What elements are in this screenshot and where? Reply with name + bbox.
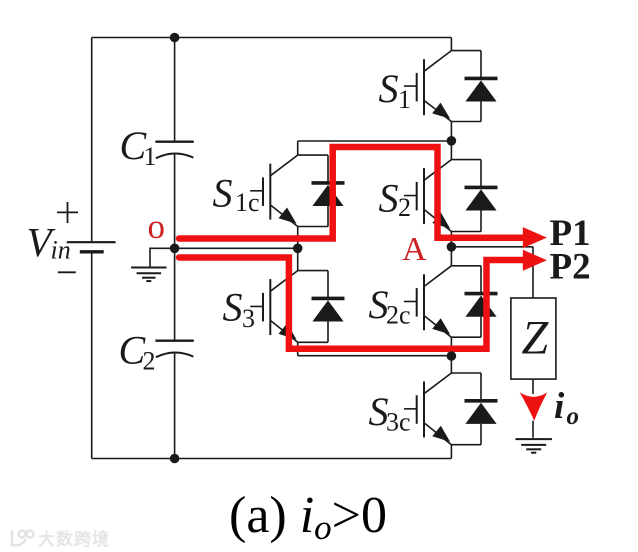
svg-text:大数跨境: 大数跨境	[38, 529, 110, 549]
current path P2 (red)	[179, 258, 524, 349]
junction dot: top rail / C1	[170, 33, 180, 43]
ground symbol at node o	[150, 248, 175, 266]
wire: top DC rail	[92, 37, 452, 39]
antiparallel diode of S2c	[465, 266, 498, 337]
svg-text:S: S	[379, 66, 399, 111]
wire: node A to load Z	[451, 247, 533, 298]
capacitor C2	[155, 341, 193, 358]
svg-text:S: S	[223, 285, 243, 330]
svg-text:2c: 2c	[386, 300, 411, 329]
label C1	[120, 123, 157, 171]
antiparallel diode of S1c	[312, 155, 345, 226]
label S1	[379, 66, 412, 114]
label io	[554, 386, 579, 430]
wire: top/bottom bridges of S3 cell	[298, 271, 328, 343]
wire: top/bottom bridges of S1 cell	[451, 51, 481, 122]
wire: top/bottom bridges of S3c cell	[451, 373, 481, 445]
wire: top/bottom bridges of S2 cell	[451, 160, 481, 232]
voltage source Vin (battery)	[67, 242, 116, 252]
arrowhead P2	[523, 250, 547, 271]
label Vin	[27, 219, 71, 265]
label S3	[223, 285, 256, 334]
junction dot: bottom rail / C2	[170, 454, 180, 464]
label S2c	[369, 282, 411, 330]
wire: capacitor branch vertical	[174, 38, 176, 459]
svg-text:(a) io>0: (a) io>0	[229, 487, 387, 547]
wire: S2-S2c junction segment (node A column)	[450, 232, 452, 266]
wire: top/bottom bridges of S2c cell	[451, 266, 481, 337]
wire: S1-S2 junction segment	[450, 122, 452, 160]
wire: io arrow to ground	[532, 421, 534, 438]
junction dot J1 (S1/S2)	[447, 136, 457, 146]
svg-text:o: o	[148, 207, 166, 246]
transistor S3 (IGBT)	[250, 271, 298, 343]
node A junction dot	[447, 242, 457, 252]
transistor S2c (IGBT)	[404, 266, 452, 337]
current path P1 (red)	[179, 147, 524, 239]
svg-text:2: 2	[143, 346, 156, 375]
junction dot J2 (S2c/S3c)	[447, 351, 457, 361]
svg-text:Z: Z	[522, 311, 550, 364]
label S1c	[213, 170, 260, 217]
current arrow io (red)	[520, 392, 548, 420]
antiparallel diode of S2	[465, 160, 498, 232]
svg-text:S: S	[379, 175, 399, 220]
antiparallel diode of S3c	[465, 373, 498, 445]
plus sign of Vin	[57, 202, 78, 223]
transistor S3c (IGBT)	[404, 373, 452, 445]
wire: bottom DC rail	[92, 458, 452, 460]
svg-text:1: 1	[398, 85, 411, 114]
wire: top/bottom bridges of S1c cell	[298, 155, 328, 226]
wire: S1 collector stub from top rail	[450, 38, 452, 51]
wire: left vertical (Vin branch)	[91, 38, 93, 459]
svg-text:1c: 1c	[235, 188, 260, 217]
node o junction dot	[170, 244, 180, 254]
capacitor C1	[155, 142, 193, 159]
svg-text:2: 2	[398, 193, 411, 222]
svg-text:o: o	[567, 403, 580, 430]
svg-text:3: 3	[242, 304, 255, 333]
wire: Z bottom to io arrow	[532, 379, 534, 394]
svg-text:S: S	[213, 170, 233, 215]
wire: clamp branch bottom (S3 to J2)	[298, 342, 452, 355]
minus sign of Vin	[58, 271, 76, 273]
watermark logo	[12, 530, 34, 545]
arrowhead P1	[523, 227, 547, 248]
label C2	[119, 328, 156, 376]
junction dot: clamp midpoint	[293, 244, 303, 254]
transistor S2 (IGBT)	[404, 160, 452, 232]
transistor S1 (IGBT)	[404, 51, 452, 122]
load Z (rectangle)	[511, 298, 556, 379]
svg-text:i: i	[554, 386, 565, 427]
wire: node o horizontal to clamp midpoint	[175, 247, 298, 249]
svg-text:3c: 3c	[386, 407, 411, 436]
wire: clamp branch top (J1 to S1c)	[298, 141, 452, 155]
wire: S2c-S3c junction segment	[450, 337, 452, 373]
svg-text:1: 1	[144, 142, 157, 171]
svg-text:in: in	[51, 236, 71, 265]
label S3c	[369, 389, 411, 437]
wire: clamp midpoint vertical segments	[297, 227, 299, 271]
wire: S3c emitter stub to bottom rail	[450, 445, 452, 459]
antiparallel diode of S3	[312, 271, 345, 343]
antiparallel diode of S1	[465, 51, 498, 122]
svg-text:A: A	[402, 231, 427, 268]
label S2	[379, 175, 412, 222]
svg-text:P2: P2	[550, 247, 591, 288]
ground symbol below load	[515, 439, 552, 453]
transistor S1c (IGBT)	[250, 155, 298, 226]
